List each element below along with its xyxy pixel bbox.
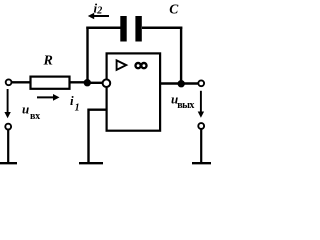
op-amp triangle symbol bbox=[117, 60, 127, 69]
output node dot bbox=[178, 80, 185, 87]
svg-text:C: C bbox=[169, 2, 179, 17]
wire bottom-left terminal to left ground bbox=[7, 130, 9, 163]
bottom-left terminal bbox=[5, 124, 11, 130]
op-amp infinity gain label bbox=[136, 63, 147, 68]
top feedback wire right segment bbox=[142, 27, 182, 30]
current arrow i1 bbox=[37, 94, 60, 101]
arrow u_vx (input voltage polarity) bbox=[4, 89, 10, 118]
feedback riser wire (node A up to top wire) bbox=[86, 27, 88, 83]
middle ground riser bbox=[87, 109, 89, 163]
svg-text:1: 1 bbox=[75, 103, 80, 114]
current arrow i2 bbox=[88, 13, 109, 20]
left ground bar bbox=[0, 162, 17, 164]
bottom-right terminal bbox=[198, 123, 204, 129]
wire bottom-right terminal to right ground bbox=[200, 129, 202, 163]
svg-text:вых: вых bbox=[177, 100, 194, 111]
wire resistor to node A bbox=[70, 81, 88, 83]
svg-text:2: 2 bbox=[96, 5, 102, 16]
op-amp inverting input circle bbox=[103, 79, 111, 87]
svg-text:u: u bbox=[22, 102, 29, 117]
resistor R bbox=[31, 77, 70, 89]
output terminal bbox=[198, 80, 204, 86]
top feedback wire left segment bbox=[86, 27, 120, 30]
middle ground bar bbox=[79, 162, 103, 164]
arrow u_vyx (output voltage polarity) bbox=[198, 91, 204, 118]
right riser wire (top wire down to output node) bbox=[180, 27, 182, 84]
capacitor C left plate bbox=[120, 16, 126, 42]
svg-text:R: R bbox=[43, 54, 53, 69]
wire node A to op-amp inverting input bbox=[87, 82, 103, 84]
node A junction dot bbox=[84, 79, 91, 86]
svg-text:i: i bbox=[70, 93, 74, 108]
wire op-amp output to output terminal bbox=[160, 82, 198, 84]
svg-text:вх: вх bbox=[30, 111, 40, 122]
non-inverting input wire bbox=[88, 108, 107, 110]
op-amp U1 box bbox=[107, 53, 161, 130]
capacitor C right plate bbox=[135, 16, 141, 42]
right ground bar bbox=[192, 162, 211, 164]
input terminal bbox=[6, 79, 12, 85]
wire input terminal to resistor bbox=[12, 81, 30, 83]
